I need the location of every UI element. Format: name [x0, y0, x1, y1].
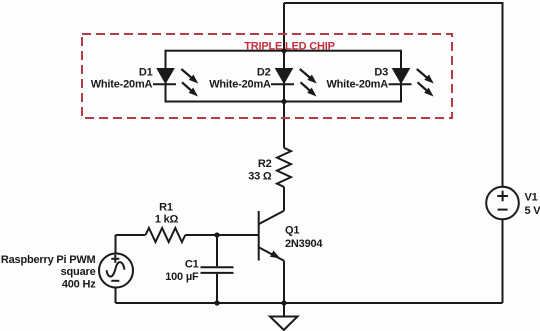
svg-text:V1: V1 [525, 192, 538, 204]
resistor R2 [277, 148, 291, 187]
svg-text:White-20mA: White-20mA [91, 78, 153, 90]
svg-text:White-20mA: White-20mA [209, 78, 271, 90]
svg-text:100 µF: 100 µF [165, 271, 199, 283]
svg-text:5 V: 5 V [525, 205, 540, 217]
capacitor C1 [201, 235, 234, 303]
junction dot box bottom [281, 99, 286, 104]
LED D1 [153, 68, 198, 97]
wire bottom rail [116, 302, 503, 304]
svg-text:square: square [61, 266, 96, 278]
svg-text:1 kΩ: 1 kΩ [155, 214, 179, 226]
svg-text:33 Ω: 33 Ω [248, 171, 272, 183]
LED D2 [271, 68, 317, 97]
svg-text:D3: D3 [374, 67, 388, 79]
junction dot base/C1 [214, 232, 219, 237]
wire right rail lower [502, 220, 504, 304]
svg-text:C1: C1 [185, 259, 199, 271]
svg-text:D1: D1 [139, 67, 153, 79]
transistor Q1 [259, 211, 284, 261]
wire top rail [284, 3, 503, 187]
LED D3 [389, 68, 434, 97]
junction dot emitter/ground [281, 300, 286, 305]
ground [270, 303, 298, 330]
svg-text:D2: D2 [257, 67, 271, 79]
svg-text:400 Hz: 400 Hz [62, 279, 96, 291]
wire R1 to base [185, 234, 258, 236]
wire base line (source to Q1 base) [116, 234, 146, 236]
junction dot C1 bottom [214, 300, 219, 305]
dashed chip outline [82, 34, 452, 118]
wire emitter down [283, 261, 285, 303]
wire central vertical (top to R2) [283, 3, 285, 148]
svg-text:Raspberry Pi PWM: Raspberry Pi PWM [1, 254, 96, 266]
transistor Q1 emitter arrowhead [270, 251, 280, 259]
svg-text:TRIPLE LED CHIP: TRIPLE LED CHIP [244, 40, 335, 52]
junction dot box top [281, 48, 286, 53]
voltage source V1 [486, 187, 519, 220]
resistor R1 [146, 228, 186, 242]
voltage source V2 Raspberry Pi PWM [99, 235, 133, 303]
svg-text:White-20mA: White-20mA [326, 78, 388, 90]
svg-text:R1: R1 [159, 202, 173, 214]
wire LED parallel box [166, 51, 402, 102]
svg-text:Q1: Q1 [285, 225, 299, 237]
svg-text:R2: R2 [258, 158, 272, 170]
svg-text:2N3904: 2N3904 [285, 238, 323, 250]
wire R2 to Q1 collector [283, 187, 285, 211]
